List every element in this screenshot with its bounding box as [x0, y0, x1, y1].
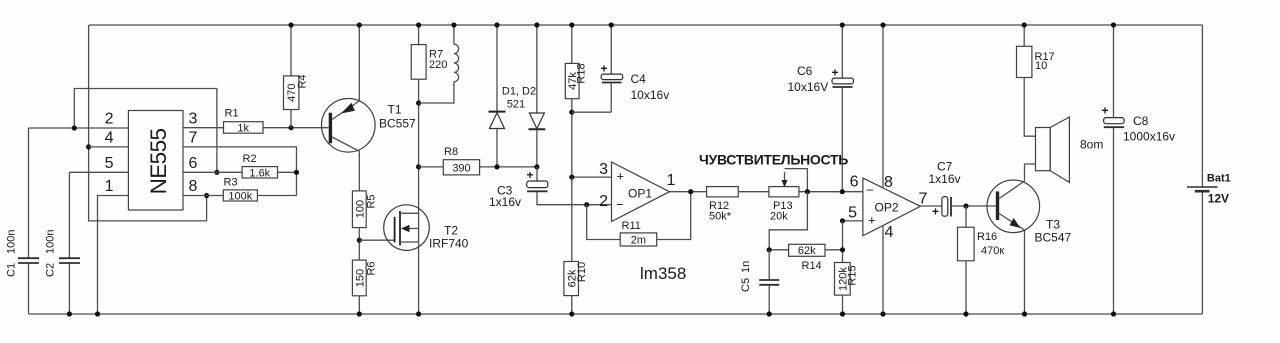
wire top positive rail — [89, 24, 1202, 26]
wire R12 to P13 — [738, 191, 769, 193]
svg-text:2: 2 — [599, 193, 608, 210]
resistor R7 — [411, 25, 447, 167]
node pin5 junction — [840, 218, 845, 223]
node R8 left junction — [416, 164, 421, 169]
svg-text:10: 10 — [1035, 60, 1047, 72]
svg-text:lm358: lm358 — [640, 264, 686, 283]
transistor Q3 T3 BC547 — [987, 180, 1072, 245]
svg-text:47k: 47k — [567, 72, 579, 90]
svg-text:C4: C4 — [631, 72, 647, 86]
svg-text:R14: R14 — [802, 260, 822, 272]
svg-text:−: − — [616, 197, 624, 212]
svg-text:1n: 1n — [740, 261, 752, 273]
node R18 top rail — [569, 22, 574, 27]
capacitor C3 — [489, 167, 612, 209]
node OP1 pin3 junction — [569, 175, 574, 180]
node R15 62k junction — [840, 247, 845, 252]
node pin8 top rail — [880, 22, 885, 27]
wire pin3 OP1 — [572, 176, 612, 178]
svg-text:Bat1: Bat1 — [1207, 173, 1231, 185]
svg-text:R11: R11 — [622, 220, 641, 232]
svg-text:+: + — [932, 205, 939, 219]
svg-text:1k: 1k — [237, 123, 249, 135]
node pin6 junction — [214, 170, 219, 175]
node OP1 pin2 junction — [584, 202, 589, 207]
resistor R1 — [224, 108, 264, 135]
node pin4 junction — [86, 144, 91, 149]
svg-text:20k: 20k — [770, 211, 788, 223]
svg-text:100n: 100n — [6, 230, 18, 254]
svg-text:C2: C2 — [45, 263, 57, 277]
node feedback output junction — [688, 189, 693, 194]
resistor R8 — [443, 146, 479, 175]
battery Bat1 — [1187, 173, 1231, 206]
svg-text:R4: R4 — [297, 74, 309, 88]
node R17 top rail — [1022, 22, 1027, 27]
svg-text:470: 470 — [286, 84, 298, 102]
svg-text:220: 220 — [429, 59, 447, 71]
svg-text:1000x16v: 1000x16v — [1123, 130, 1175, 144]
node C8 ground — [1111, 311, 1116, 316]
resistor R4 — [284, 25, 309, 128]
svg-text:1.6k: 1.6k — [249, 167, 270, 179]
svg-text:100k: 100k — [228, 191, 252, 203]
svg-text:62k: 62k — [566, 269, 578, 287]
svg-text:150: 150 — [354, 269, 366, 287]
svg-text:2: 2 — [105, 111, 114, 128]
wire OP2 pin4 to ground — [882, 226, 884, 315]
resistor R18 — [565, 25, 587, 177]
wire OP2 output — [920, 205, 942, 207]
node D1 top rail — [494, 22, 499, 27]
resistor R15 — [835, 263, 859, 315]
svg-text:4: 4 — [885, 224, 894, 241]
svg-text:6: 6 — [850, 174, 859, 191]
svg-text:8: 8 — [884, 174, 893, 191]
wire P13 output to OP2 pin6 — [799, 191, 863, 193]
op-amp U3 OP2 — [848, 174, 927, 242]
svg-text:10x16v: 10x16v — [631, 88, 670, 102]
capacitor C2 — [45, 172, 81, 314]
svg-text:100n: 100n — [45, 230, 57, 254]
svg-text:470к: 470к — [981, 245, 1004, 257]
node R2 right junction — [294, 170, 299, 175]
resistor R14 — [789, 244, 825, 272]
svg-text:R16: R16 — [977, 231, 997, 243]
resistor R5 — [352, 191, 377, 228]
node C6 top rail — [840, 22, 845, 27]
wire pin1 to ground — [98, 196, 129, 315]
wire T1 collector to R5 — [358, 151, 360, 191]
node R7 coil junction — [416, 100, 421, 105]
resistor R6 — [352, 260, 377, 296]
node D2 top rail — [534, 22, 539, 27]
svg-text:ЧУВСТВИТЕЛЬНОСТЬ: ЧУВСТВИТЕЛЬНОСТЬ — [699, 152, 848, 168]
inductor L1 search coil — [419, 25, 459, 103]
wire Vcc to pin4 pin8 loop — [89, 25, 207, 221]
capacitor C8 — [1102, 25, 1176, 314]
svg-text:390: 390 — [452, 162, 470, 174]
wire R5 to R6 — [358, 228, 360, 261]
svg-text:1: 1 — [667, 172, 676, 189]
svg-text:OP1: OP1 — [628, 187, 652, 201]
svg-text:3: 3 — [189, 111, 198, 128]
svg-text:+: + — [868, 213, 876, 228]
svg-text:3: 3 — [599, 161, 608, 178]
svg-text:1x16v: 1x16v — [489, 195, 521, 209]
svg-text:BC557: BC557 — [379, 117, 416, 131]
node C6 pin6 junction — [840, 189, 845, 194]
node gate junction — [357, 238, 362, 243]
svg-text:6: 6 — [189, 155, 198, 172]
wire pin3 to T1 base — [183, 127, 329, 129]
svg-text:R3: R3 — [224, 176, 238, 188]
svg-text:R8: R8 — [444, 146, 458, 158]
node D1 bottom junction — [494, 164, 499, 169]
wire OP2 pin5 — [843, 220, 863, 222]
op-amp U2 OP1 — [599, 161, 675, 222]
svg-text:8: 8 — [189, 178, 198, 195]
wire P13 node down to C5 node — [769, 192, 807, 250]
wire R18 to C4 bottom — [572, 111, 611, 113]
svg-text:−: − — [866, 183, 874, 198]
wire OP2 pin8 to rail — [882, 25, 884, 188]
svg-text:4: 4 — [105, 130, 114, 147]
wire pin6 stub — [183, 171, 242, 173]
svg-text:7: 7 — [919, 191, 928, 208]
node L1 top rail — [451, 22, 456, 27]
svg-text:62k: 62k — [798, 245, 816, 257]
svg-text:R1: R1 — [225, 108, 239, 120]
svg-text:C6: C6 — [797, 64, 813, 78]
node C4 top rail — [609, 22, 614, 27]
resistor R17 — [1017, 25, 1055, 136]
transistor Q1 T1 BC557 — [322, 99, 417, 153]
node pin4 ground — [880, 311, 885, 316]
svg-text:7: 7 — [189, 130, 198, 147]
wire T3 collector up — [1025, 164, 1036, 181]
resistor R3 — [223, 176, 296, 202]
wire pin2 horizontal — [29, 127, 129, 129]
capacitor C4 — [601, 25, 670, 112]
capacitor C7 — [929, 160, 996, 219]
node R6 ground — [357, 311, 362, 316]
node C8 top rail — [1111, 22, 1116, 27]
wire pin8 stub — [183, 195, 223, 197]
svg-text:R6: R6 — [366, 261, 378, 275]
potentiometer P13 — [769, 169, 808, 223]
svg-text:C5: C5 — [740, 278, 752, 292]
svg-text:5: 5 — [848, 205, 857, 222]
svg-text:T1: T1 — [388, 103, 402, 117]
svg-text:R2: R2 — [243, 153, 257, 165]
wire OP1 feedback loop — [587, 192, 691, 240]
node R15 ground — [840, 311, 845, 316]
diode D1 — [489, 25, 506, 167]
svg-text:100: 100 — [354, 200, 366, 218]
svg-text:R5: R5 — [366, 194, 378, 208]
wire right vertical to battery — [1201, 25, 1203, 187]
node C2 ground — [67, 311, 72, 316]
resistor R2 — [242, 153, 296, 179]
svg-text:C8: C8 — [1133, 114, 1149, 128]
node R10 ground — [569, 311, 574, 316]
node T1 emitter rail — [357, 22, 362, 27]
resistor R11 — [620, 220, 657, 247]
svg-text:IRF740: IRF740 — [429, 237, 469, 251]
capacitor C6 — [788, 25, 854, 192]
svg-text:BC547: BC547 — [1035, 231, 1072, 245]
transistor Q2 T2 IRF740 — [384, 205, 469, 251]
node pin2 junction — [72, 125, 77, 130]
svg-text:NE555: NE555 — [146, 129, 171, 195]
node D2 bottom junction — [534, 164, 539, 169]
wire R8 line — [419, 166, 537, 168]
svg-text:+: + — [527, 168, 534, 182]
svg-text:50k*: 50k* — [709, 211, 732, 223]
node T3 emitter ground — [1022, 311, 1027, 316]
svg-text:2m: 2m — [631, 235, 646, 247]
node T3 base junction — [963, 203, 968, 208]
node R16 ground — [963, 311, 968, 316]
capacitor C1 — [6, 128, 40, 314]
wire pin5 horizontal — [69, 171, 128, 173]
wire pin7 vertical link — [183, 147, 297, 196]
node P13 wiper junction — [805, 189, 810, 194]
capacitor C5 — [740, 250, 779, 314]
node C5 ground — [767, 311, 772, 316]
svg-text:120k: 120k — [837, 267, 849, 291]
node pin8 junction — [204, 193, 209, 198]
svg-text:521: 521 — [507, 99, 525, 111]
wire R6 to ground — [358, 296, 360, 314]
node T2 source ground — [416, 311, 421, 316]
svg-text:5: 5 — [105, 155, 114, 172]
wire T3 emitter to ground — [1024, 230, 1026, 314]
wire gate junction to T2 gate — [359, 239, 394, 241]
svg-text:+: + — [601, 62, 608, 76]
svg-text:C1: C1 — [6, 263, 18, 277]
resistor R10 — [564, 177, 588, 314]
wire pin4 horizontal — [89, 146, 129, 148]
svg-text:10x16V: 10x16V — [788, 80, 829, 94]
svg-text:8om: 8om — [1080, 138, 1103, 152]
wire bottom ground rail — [29, 313, 1203, 315]
svg-text:1x16v: 1x16v — [929, 172, 961, 186]
diode D2 — [529, 25, 546, 167]
wire battery bottom to ground — [1201, 192, 1203, 314]
node R4 pin3 junction — [288, 125, 293, 130]
svg-text:D1, D2: D1, D2 — [502, 86, 536, 98]
node C5 top junction — [767, 247, 772, 252]
node R18 C4 junction — [569, 110, 574, 115]
node R7 top rail — [416, 22, 421, 27]
node R4 top rail — [288, 22, 293, 27]
svg-text:+: + — [617, 169, 625, 184]
svg-text:OP2: OP2 — [875, 201, 899, 215]
wire pin2 to pin6 loop — [74, 89, 217, 173]
node pin1 ground — [95, 311, 100, 316]
svg-text:+: + — [1102, 104, 1109, 118]
svg-text:+: + — [832, 66, 839, 80]
svg-text:12V: 12V — [1208, 192, 1229, 206]
svg-text:T3: T3 — [1046, 218, 1060, 232]
svg-text:T2: T2 — [444, 224, 458, 238]
svg-text:1: 1 — [105, 178, 114, 195]
wire T2 drain-source vertical — [418, 167, 420, 314]
op IC U1 NE555 — [105, 111, 198, 211]
wire 62k line — [769, 249, 842, 251]
wire OP1 output line — [670, 191, 707, 193]
wire T1 emitter to rail — [358, 25, 360, 101]
resistor R12 — [707, 187, 739, 223]
speaker LS1 — [1036, 117, 1104, 182]
resistor R16 — [958, 206, 1005, 314]
wire pin5 down through R15 — [842, 221, 844, 263]
